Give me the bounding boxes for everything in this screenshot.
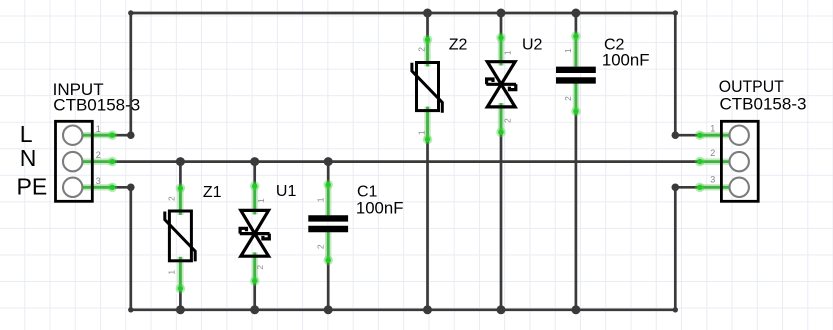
svg-text:2: 2	[503, 118, 513, 123]
svg-text:CTB0158-3: CTB0158-3	[720, 94, 807, 113]
svg-text:PE: PE	[17, 173, 48, 199]
svg-text:1: 1	[167, 270, 177, 275]
svg-text:Z1: Z1	[203, 184, 222, 201]
svg-text:2: 2	[710, 148, 715, 158]
svg-text:U1: U1	[276, 183, 297, 200]
svg-text:2: 2	[96, 150, 101, 160]
svg-text:100nF: 100nF	[602, 51, 650, 70]
svg-text:3: 3	[96, 176, 101, 186]
svg-text:2: 2	[255, 265, 265, 270]
svg-text:1: 1	[96, 124, 101, 134]
svg-text:1: 1	[563, 48, 573, 53]
svg-text:1: 1	[256, 198, 266, 203]
svg-text:1: 1	[503, 50, 513, 55]
svg-text:Z2: Z2	[449, 37, 468, 54]
svg-text:2: 2	[563, 96, 573, 101]
svg-text:OUTPUT: OUTPUT	[719, 77, 784, 96]
svg-text:L: L	[20, 121, 33, 147]
svg-text:2: 2	[417, 47, 427, 52]
svg-text:3: 3	[710, 175, 715, 185]
svg-text:U2: U2	[522, 37, 543, 54]
svg-text:1: 1	[316, 197, 326, 202]
svg-text:1: 1	[417, 130, 427, 135]
svg-text:100nF: 100nF	[356, 199, 404, 218]
svg-text:1: 1	[710, 124, 715, 134]
svg-text:CTB0158-3: CTB0158-3	[53, 96, 140, 115]
svg-text:N: N	[20, 145, 37, 171]
svg-text:2: 2	[316, 244, 326, 249]
svg-text:2: 2	[167, 196, 177, 201]
